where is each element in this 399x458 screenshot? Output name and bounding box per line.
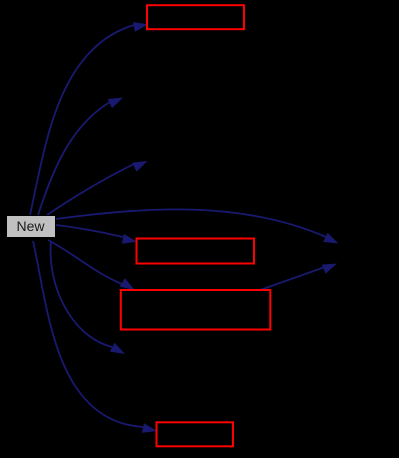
box2 (middle red box)	[137, 239, 255, 264]
edge New->box2	[56, 225, 137, 244]
edge New->box1 (top)	[30, 22, 148, 215]
edge box3->hidden-node-right	[260, 264, 337, 291]
edge New->box3	[48, 240, 135, 290]
box1 (top red box)	[147, 5, 244, 29]
edge New->box4	[33, 241, 157, 433]
edge New->hidden-node-mid	[47, 161, 148, 215]
edge New->hidden-node-upper	[38, 98, 123, 216]
box3 (large red box)	[121, 290, 270, 330]
node New	[7, 216, 56, 238]
edge New->hidden-node-lower	[51, 241, 125, 354]
svg-text:New: New	[16, 218, 45, 234]
box4 (bottom red box)	[157, 422, 234, 446]
edge New->hidden-node-right	[56, 209, 339, 243]
